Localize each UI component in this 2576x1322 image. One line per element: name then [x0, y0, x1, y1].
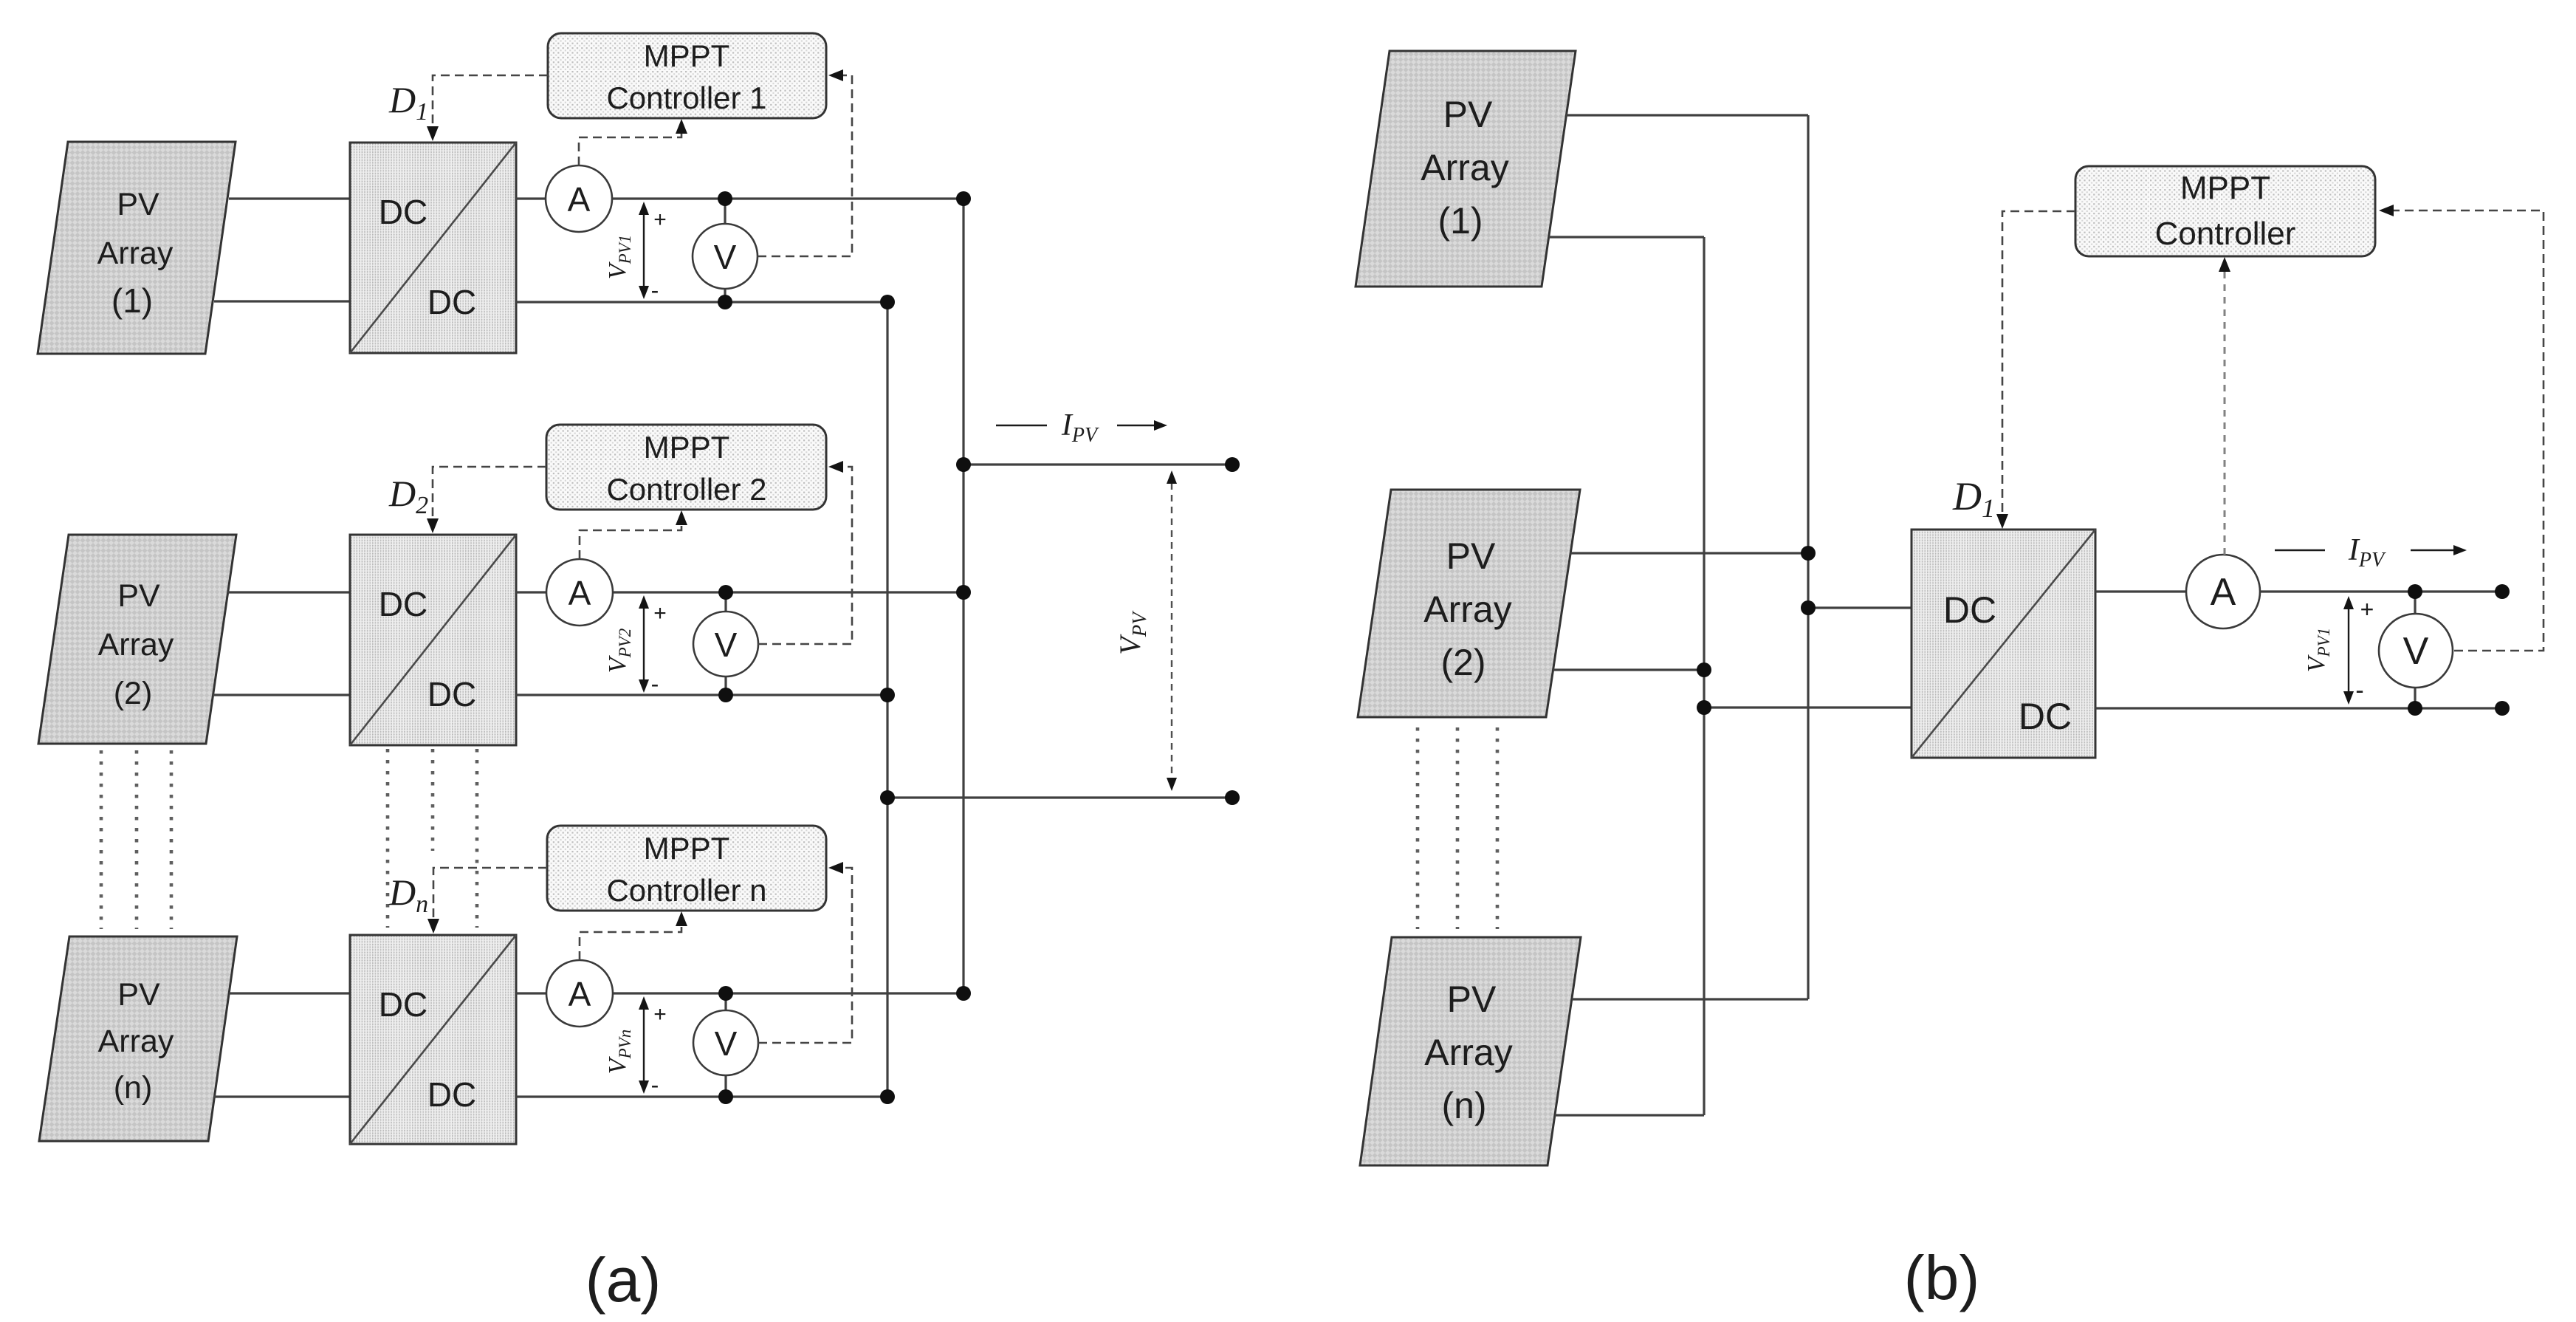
svg-text:DC: DC	[379, 193, 427, 231]
svg-text:Array: Array	[1424, 1032, 1512, 1073]
voltmeter V2	[693, 612, 758, 677]
node bus row1 minus	[880, 295, 895, 309]
wire PV1 minus to U1	[214, 300, 350, 302]
svg-text:Array: Array	[98, 627, 174, 662]
PV array B1	[1356, 51, 1576, 287]
label VPV1	[604, 235, 634, 279]
svg-text:DC: DC	[1943, 589, 1996, 631]
ammeter Ab	[2186, 555, 2260, 629]
dotted continuation below B2	[1418, 727, 1497, 929]
svg-text:IPV: IPV	[2348, 533, 2386, 572]
svg-text:PV: PV	[117, 977, 160, 1013]
node Ub minus input junction	[1697, 700, 1711, 715]
ammeter A2	[546, 559, 613, 626]
ammeter A1	[546, 165, 612, 232]
wire U1 output plus to bus	[516, 197, 964, 199]
wire Un output minus to bus	[516, 1095, 887, 1097]
wire negative bus b	[1703, 237, 1705, 1115]
svg-text:MPPT: MPPT	[644, 38, 730, 73]
wire Bn minus	[1555, 1114, 1704, 1116]
wire dashed Dn control	[433, 868, 547, 919]
svg-text:Dn: Dn	[388, 871, 428, 918]
wire dashed A1 feedback	[579, 133, 681, 165]
svg-text:VPV2: VPV2	[604, 629, 634, 673]
svg-text:(n): (n)	[114, 1070, 153, 1106]
svg-text:A: A	[568, 180, 591, 219]
node output b minus terminal	[2495, 701, 2510, 716]
dc-dc converter Ub	[1912, 530, 2095, 758]
wire positive bus	[962, 199, 964, 993]
svg-text:(n): (n)	[1441, 1085, 1486, 1126]
wire dashed D1b control	[2002, 211, 2075, 515]
node bus output plus	[956, 457, 971, 472]
svg-text:A: A	[2211, 571, 2236, 614]
svg-text:PV: PV	[1443, 94, 1493, 135]
svg-text:V: V	[715, 626, 738, 664]
dotted continuation below PV2	[101, 750, 171, 929]
voltmeter Vn	[693, 1010, 758, 1075]
dimension arrow VPV1 panel b	[2348, 609, 2349, 692]
svg-text:+: +	[2360, 596, 2374, 623]
svg-text:+: +	[653, 208, 667, 232]
node bus row2 minus	[880, 688, 895, 702]
dotted continuation below U2	[388, 749, 477, 928]
ammeter An	[546, 960, 613, 1027]
dimension dashed VPV panel a	[1171, 483, 1172, 778]
svg-text:Array: Array	[98, 1024, 174, 1059]
svg-text:VPV1: VPV1	[2303, 628, 2333, 672]
mppt controller Cb	[2075, 166, 2375, 256]
node Vn top junction	[718, 986, 733, 1001]
wire U1 output minus to bus	[516, 301, 887, 303]
PV array PV1	[38, 142, 236, 354]
node bus output minus	[880, 790, 895, 805]
wire negative bus	[886, 302, 888, 1097]
wire dashed An feedback	[580, 925, 681, 960]
svg-text:(1): (1)	[111, 281, 153, 320]
svg-text:D1: D1	[388, 79, 428, 126]
svg-text:D2: D2	[388, 473, 428, 519]
wire B1 minus	[1549, 236, 1704, 238]
svg-text:(2): (2)	[1440, 642, 1486, 683]
wire PV2 plus to U2	[227, 591, 350, 593]
voltmeter Vb	[2379, 614, 2453, 688]
wire Vb stub	[2414, 592, 2416, 708]
dc-dc converter U2	[350, 535, 516, 745]
mppt controller C1	[548, 33, 826, 118]
svg-text:-: -	[651, 671, 659, 697]
mppt controller C2	[546, 425, 826, 510]
wire Ub output plus	[2095, 590, 2502, 592]
node V1 bottom junction	[718, 295, 732, 309]
svg-text:Array: Array	[97, 236, 174, 271]
svg-text:DC: DC	[427, 1075, 476, 1114]
wire B2 plus	[1570, 552, 1808, 554]
wire Ub output minus	[2095, 707, 2502, 709]
node bus row2 plus	[956, 585, 971, 600]
svg-text:Controller 2: Controller 2	[606, 472, 766, 507]
svg-text:A: A	[569, 975, 591, 1013]
wire dashed V2 feedback	[758, 467, 852, 644]
svg-text:VPV1: VPV1	[604, 235, 634, 279]
PV array Bn	[1360, 937, 1581, 1165]
wire U2 output plus to bus	[516, 591, 964, 593]
svg-text:Controller n: Controller n	[606, 873, 766, 908]
svg-text:MPPT: MPPT	[644, 430, 730, 465]
svg-text:(b): (b)	[1904, 1243, 1980, 1312]
svg-text:-: -	[651, 277, 659, 304]
wire positive bus b	[1807, 115, 1809, 999]
svg-text:D1: D1	[1952, 474, 1995, 523]
node bus rown plus	[956, 986, 971, 1001]
node Ub plus input junction	[1801, 600, 1816, 615]
voltmeter V1	[693, 224, 758, 289]
wire PVn plus to Un	[229, 992, 350, 994]
wire Un output plus to bus	[516, 992, 964, 994]
PV array PVn	[39, 936, 237, 1141]
svg-text:DC: DC	[427, 283, 476, 321]
PV array B2	[1358, 490, 1580, 717]
svg-text:(1): (1)	[1438, 200, 1483, 242]
wire bus to Ub minus input	[1704, 706, 1912, 708]
node B2 plus junction	[1801, 546, 1816, 561]
svg-text:A: A	[569, 574, 591, 612]
wire bus to Ub plus input	[1808, 606, 1912, 609]
node V1 top junction	[718, 191, 732, 206]
svg-text:-: -	[651, 1072, 659, 1098]
label IPV panel b	[2275, 533, 2454, 572]
svg-text:VPV: VPV	[1113, 610, 1150, 655]
svg-text:V: V	[714, 238, 737, 276]
node bus rown minus	[880, 1089, 895, 1104]
dimension arrow VPV2	[643, 608, 645, 680]
label VPV panel a	[1113, 610, 1150, 655]
label VPV2	[604, 629, 634, 673]
mppt controller Cn	[547, 826, 826, 911]
dc-dc converter Un	[350, 935, 516, 1144]
dc-dc converter U1	[350, 143, 516, 353]
wire Bn plus	[1572, 998, 1808, 1000]
svg-text:PV: PV	[117, 578, 160, 614]
wire B1 plus	[1566, 114, 1808, 116]
PV array PV2	[38, 535, 236, 744]
svg-text:PV: PV	[117, 187, 159, 222]
wire V1 stub	[724, 199, 726, 302]
node Vb top junction	[2408, 584, 2422, 599]
svg-text:DC: DC	[379, 985, 427, 1024]
wire dashed D1 control	[433, 75, 548, 127]
wire PV2 minus to U2	[213, 693, 350, 696]
node output minus terminal	[1225, 790, 1240, 805]
label IPV panel a	[996, 408, 1155, 447]
node Vb bottom junction	[2408, 701, 2422, 716]
svg-text:VPVn: VPVn	[604, 1030, 634, 1074]
wire dashed D2 control	[433, 467, 546, 519]
wire output negative	[887, 796, 1232, 798]
svg-text:Controller 1: Controller 1	[606, 81, 766, 115]
wire dashed V1 feedback	[758, 75, 852, 256]
wire B2 minus	[1553, 668, 1704, 671]
wire Vn stub	[724, 993, 727, 1097]
wire output positive	[964, 463, 1232, 465]
svg-text:MPPT: MPPT	[2180, 170, 2270, 206]
svg-text:Array: Array	[1423, 589, 1511, 630]
svg-text:-: -	[2355, 677, 2363, 705]
node V2 top junction	[718, 585, 733, 600]
label VPV1 panel b	[2303, 628, 2333, 672]
node B2 minus junction	[1697, 662, 1711, 677]
dimension arrow VPVn	[643, 1009, 645, 1081]
svg-text:V: V	[715, 1024, 738, 1063]
wire V2 stub	[724, 592, 727, 695]
svg-text:+: +	[653, 1002, 667, 1027]
node output plus terminal	[1225, 457, 1240, 472]
wire dashed A2 feedback	[580, 524, 681, 559]
node V2 bottom junction	[718, 688, 733, 702]
svg-text:+: +	[653, 601, 667, 626]
svg-text:Array: Array	[1421, 147, 1508, 188]
svg-text:(2): (2)	[114, 676, 153, 711]
wire dashed Vn feedback	[758, 868, 852, 1043]
svg-text:DC: DC	[379, 585, 427, 623]
svg-text:(a): (a)	[585, 1245, 662, 1315]
wire dashed Ab feedback	[2224, 271, 2226, 555]
svg-text:DC: DC	[427, 675, 476, 713]
svg-text:DC: DC	[2019, 696, 2072, 737]
wire dashed Vb feedback	[2393, 210, 2544, 651]
wire PVn minus to Un	[214, 1095, 350, 1097]
svg-text:IPV: IPV	[1061, 408, 1099, 447]
svg-text:MPPT: MPPT	[644, 831, 730, 866]
node output b plus terminal	[2495, 584, 2510, 599]
wire U2 output minus to bus	[516, 693, 887, 696]
label VPVn	[604, 1030, 634, 1074]
svg-text:PV: PV	[1446, 535, 1496, 577]
dimension arrow VPV1	[643, 214, 645, 287]
svg-text:V: V	[2403, 630, 2429, 673]
svg-text:Controller: Controller	[2155, 216, 2296, 252]
node Vn bottom junction	[718, 1089, 733, 1104]
wire PV1 plus to U1	[229, 197, 350, 199]
svg-text:PV: PV	[1447, 979, 1497, 1020]
node bus row1 plus	[956, 191, 971, 206]
